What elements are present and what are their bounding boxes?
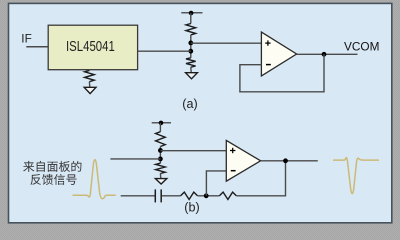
svg-text:(b): (b) — [184, 200, 199, 214]
wire: bar down to resistor (a) — [190, 13, 192, 24]
node: output junction (b) — [283, 158, 288, 163]
node: top rail bar of divider (a) — [181, 11, 202, 16]
wire: op-amp (b) output — [261, 160, 318, 162]
node: junction to ISL45041 output (a) — [188, 49, 193, 54]
resistor: feedback resistor (b) — [219, 192, 236, 199]
node: output junction (a) — [322, 52, 327, 57]
wire: op-amp (a) output to VCOM — [297, 53, 358, 55]
wire: bar down to resistor (b) — [159, 123, 161, 132]
wire: stub toward panel waveform — [110, 158, 160, 160]
node: top rail bar of divider (b) — [152, 121, 171, 126]
wire: waveform baseline to capacitor — [121, 195, 155, 197]
label IF — [21, 32, 31, 46]
ground: ISL45041 ground arrow — [84, 87, 96, 93]
waveform: output pulse (inverted) — [333, 158, 379, 194]
resistor: from ISL45041 bottom to ground — [85, 70, 95, 88]
resistor: upper divider resistor (b) — [156, 132, 166, 147]
wire: IF input to ISL45041 — [26, 46, 48, 48]
label VCOM — [344, 40, 379, 54]
op-amp U3 (b) — [226, 140, 260, 181]
wire: capacitor to input resistor — [162, 195, 181, 197]
wire: divider junction to op-amp + input (b) — [160, 150, 227, 152]
resistor: upper divider resistor (a) — [186, 24, 196, 35]
waveform: feedback pulse from panel — [73, 160, 116, 199]
svg-text:IF: IF — [21, 32, 31, 46]
svg-text:ISL45041: ISL45041 — [66, 39, 115, 55]
label (b) — [184, 200, 199, 214]
resistor: lower divider resistor (b) — [156, 163, 166, 178]
ground: divider ground arrow (b) — [155, 179, 166, 184]
resistor: lower divider resistor (a) — [186, 58, 196, 73]
label: Chinese annotation line2 反馈信号 — [30, 174, 76, 185]
node: inverting input node (b) — [204, 193, 209, 198]
wire: feedback loop output to inverting input (a) — [240, 54, 324, 92]
wire: feedback resistor right to output junction — [236, 161, 285, 196]
node: junction to panel feedback stub (b) — [158, 157, 163, 162]
wire: inverting node up to op-amp - input — [206, 171, 227, 196]
label: Chinese annotation line1 来自面板的 — [23, 161, 81, 172]
wire: resistor down through junctions (b) — [159, 147, 161, 164]
node: junction to op-amp noninverting input (a) — [188, 41, 193, 46]
wire: divider junction to op-amp + input (a) — [191, 42, 262, 44]
capacitor C1 — [155, 189, 161, 202]
svg-text:(a): (a) — [182, 97, 197, 111]
wire: ISL45041 output to divider junction (a) — [138, 50, 191, 52]
op-amp U2 (a) — [261, 32, 296, 76]
IC U1: ISL45041 — [48, 25, 137, 69]
wire: input resistor to inverting node — [198, 195, 220, 197]
svg-text:VCOM: VCOM — [344, 40, 379, 54]
ground: divider ground arrow (a) — [186, 73, 198, 79]
label (a) — [182, 97, 197, 111]
wire: resistor down through junctions (a) — [190, 35, 192, 58]
node: junction to op-amp noninverting input (b) — [158, 148, 163, 153]
resistor: input resistor (b) — [181, 192, 198, 199]
